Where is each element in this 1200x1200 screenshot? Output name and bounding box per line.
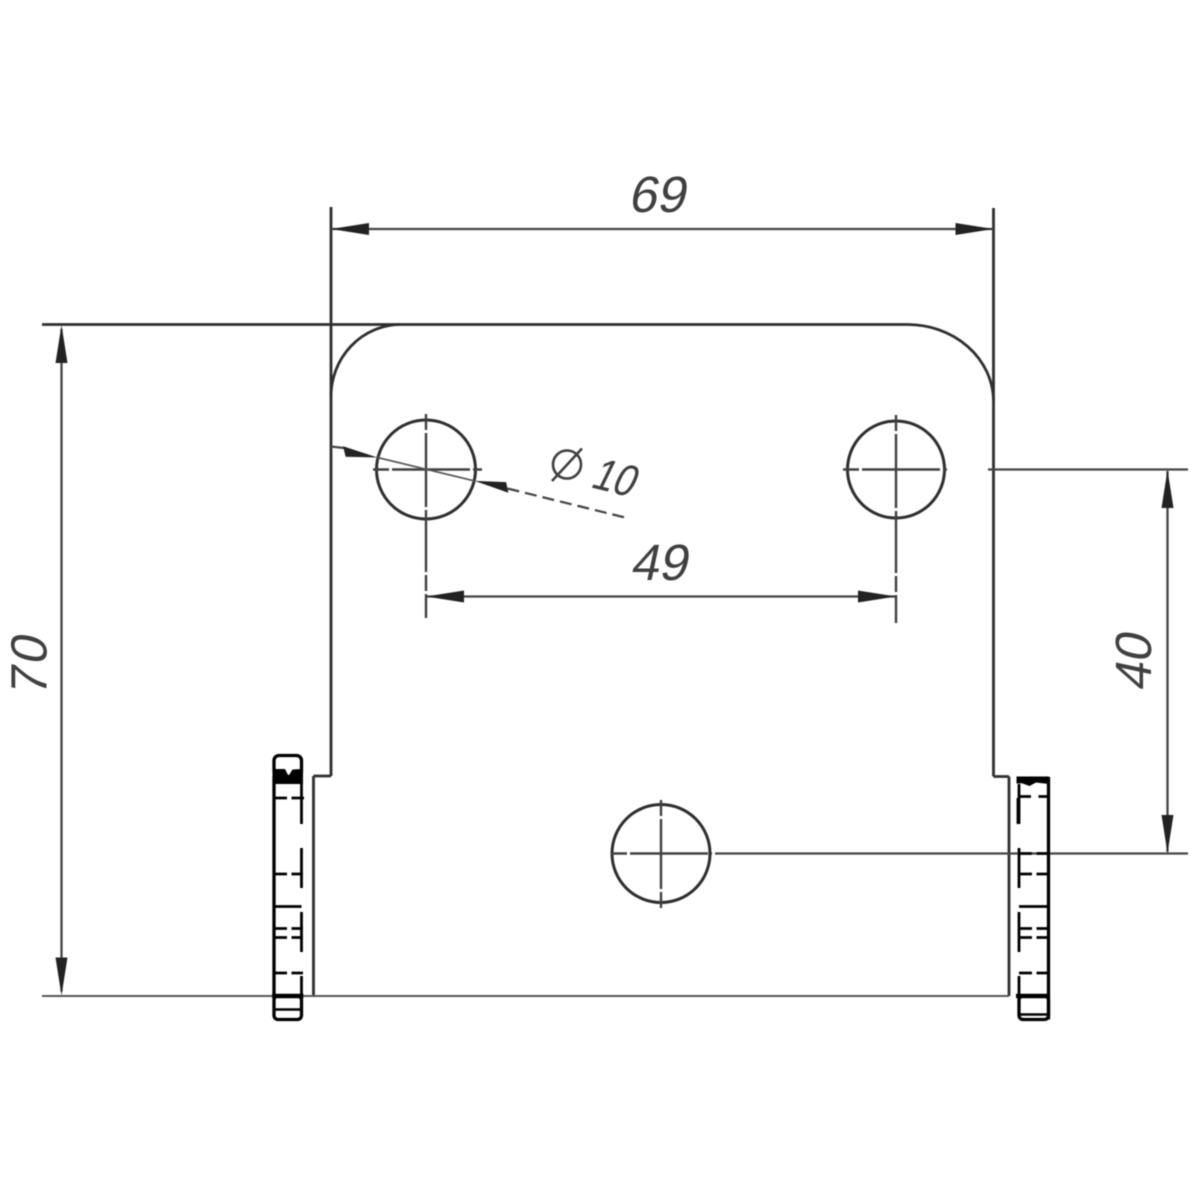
diameter symbol slash [552, 449, 582, 482]
hole H2 vertical centerline [895, 415, 897, 623]
svg-text:70: 70 [0, 625, 57, 700]
stud S1 left top cap [274, 756, 302, 777]
stud S1 bottom cap [274, 996, 302, 1020]
part left jog [314, 776, 332, 996]
stud S1 left edge [272, 776, 275, 996]
stud S2 thread tick y853 (centerline crossing) [1019, 852, 1050, 855]
dimension 40 extension line top [988, 468, 1188, 470]
stud S2 bottom thick band [1016, 994, 1050, 999]
dimension 40 extension line bottom [715, 852, 1188, 854]
arrow 70 top [56, 325, 68, 363]
stud S2 dashed left edge [1018, 784, 1021, 996]
wire diameter line through hole [378, 458, 475, 481]
dimension 70 line [60, 329, 62, 992]
arrow 69 right [956, 223, 994, 235]
stud S2 thread tick y928 [1019, 927, 1050, 930]
part top-right corner arc [907, 324, 994, 400]
hole H2 horizontal centerline [843, 468, 947, 470]
stud S2 thread tick y874 [1019, 873, 1050, 876]
stud S1 thread tick y937 [273, 936, 303, 939]
arrow 69 left [331, 223, 369, 235]
wire part bottom edge + 70 extension line [42, 995, 1009, 997]
leader diameter line from part edge [331, 447, 345, 449]
stud S1 dashed right edge [300, 784, 303, 996]
hole H1 horizontal centerline [373, 468, 482, 470]
stud S2 right edge [1047, 777, 1050, 1020]
part right jog [994, 777, 1010, 997]
dimension 69 line [331, 228, 994, 230]
stud S1 thread tick y973 [273, 972, 303, 975]
stud S1 thread tick y928 [273, 927, 303, 930]
stud S2 vertical dash [1017, 798, 1020, 824]
arrow 49 right [858, 591, 896, 603]
hole H1 top-left circle [377, 420, 476, 519]
hole H3 vertical centerline [660, 800, 662, 908]
diameter symbol circle [553, 451, 581, 479]
part left edge + 69 extension line [330, 207, 333, 776]
stud S2 thread tick y937 [1019, 936, 1050, 939]
stud S2 bottom cap inner line [1020, 1013, 1047, 1016]
arrow 40 bottom [1162, 815, 1174, 853]
stud S1 bottom cap inner line [275, 1008, 301, 1011]
dimension 49 line [426, 595, 896, 597]
stud S1 thread tick y874 [273, 873, 303, 876]
stud S1 thread tick y798 [273, 797, 304, 800]
hole H1 vertical centerline [425, 414, 427, 618]
arrow 40 top [1162, 470, 1174, 508]
stud S2 thread tick y796 [1018, 795, 1050, 798]
arrow diameter left (tip on circle) [343, 446, 377, 457]
hole H2 top-right circle [848, 421, 945, 518]
stud S1 bottom thick band [272, 994, 304, 999]
arrow 49 left [426, 591, 464, 603]
stud S1 left crimp band [273, 769, 304, 784]
hole H3 bottom-center circle [612, 805, 710, 903]
stud S2 full line y906 [1019, 905, 1049, 908]
leader dashed tail [508, 489, 626, 518]
arrow 70 bottom [56, 958, 68, 996]
part right edge + 69 extension line [992, 208, 995, 777]
part top-left corner arc [331, 325, 400, 398]
hole H3 horizontal centerline [611, 852, 712, 854]
stud S1 full line y906 [274, 905, 302, 908]
dimension 40 line [1166, 471, 1168, 852]
wire top extension line + part top edge [42, 323, 907, 326]
arrow diameter right (tip on circle) [475, 481, 509, 493]
stud S2 thread tick y973 [1019, 972, 1050, 975]
stud S2 right top band [1017, 777, 1050, 787]
stud S2 bottom cap [1019, 996, 1049, 1020]
